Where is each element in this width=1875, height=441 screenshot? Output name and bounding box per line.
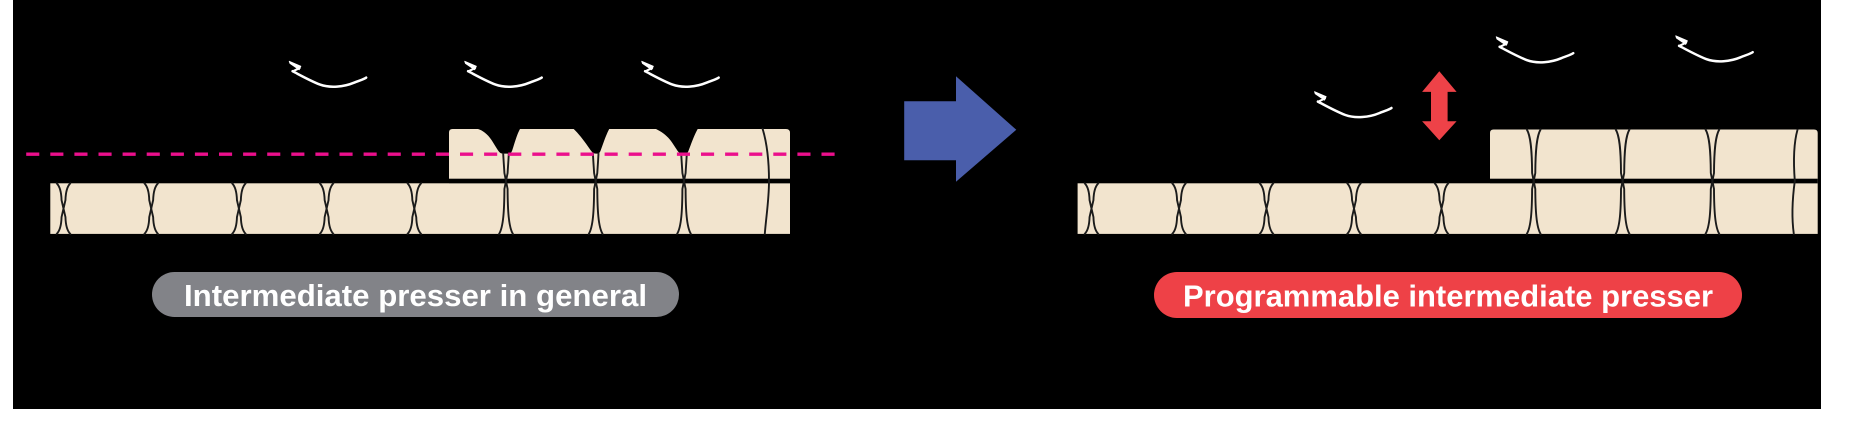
svg-text:Intermediate presser in genera: Intermediate presser in general bbox=[184, 278, 647, 313]
svg-text:Programmable intermediate pres: Programmable intermediate presser bbox=[1183, 278, 1713, 313]
